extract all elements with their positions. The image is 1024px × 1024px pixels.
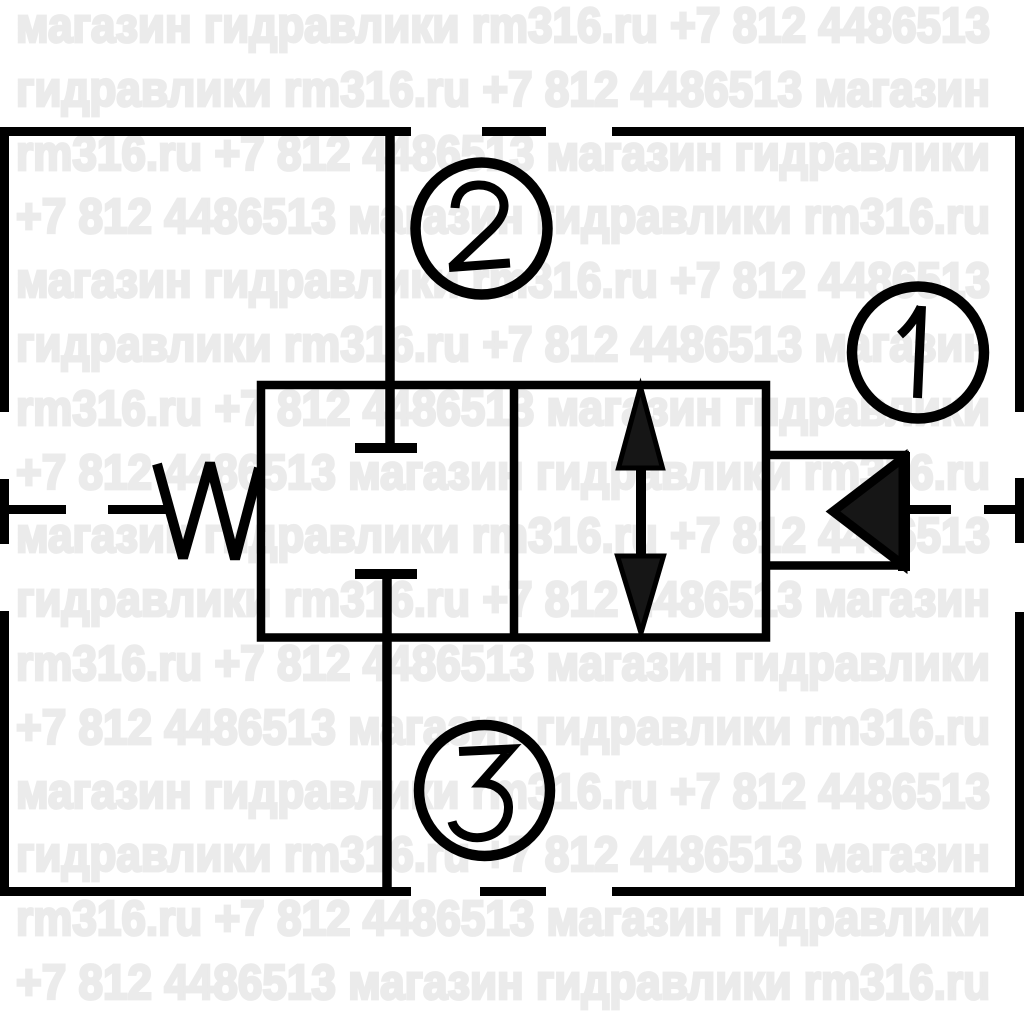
envelope top border (dashed) xyxy=(0,127,1024,136)
svg-text:rm316.ru +7 812 4486513 магази: rm316.ru +7 812 4486513 магазин гидравли… xyxy=(16,892,990,946)
svg-text:гидравлики rm316.ru +7 812 448: гидравлики rm316.ru +7 812 4486513 магаз… xyxy=(16,573,990,627)
envelope bottom border (dashed) xyxy=(0,887,1024,896)
port label circle 3 xyxy=(419,725,550,856)
svg-text:гидравлики rm316.ru +7 812 448: гидравлики rm316.ru +7 812 4486513 магаз… xyxy=(16,63,990,117)
svg-text:+7 812 4486513 магазин гидравл: +7 812 4486513 магазин гидравлики rm316.… xyxy=(16,956,990,1010)
digit 3 xyxy=(452,749,511,838)
blocked port T bottom (left square) xyxy=(355,574,417,638)
envelope left border (dashed) xyxy=(0,127,9,896)
port 1 stub dashes xyxy=(910,505,1020,514)
pilot dashed line left xyxy=(0,505,169,514)
port 3 line xyxy=(382,638,392,892)
valve body envelope (two-position body) xyxy=(261,385,766,638)
digit 1 xyxy=(900,306,922,398)
envelope right border (dashed) xyxy=(1015,127,1024,896)
flow arrow double-headed (right square) xyxy=(618,387,664,633)
blocked port T top (left square) xyxy=(355,385,417,448)
svg-text:rm316.ru +7 812 4486513 магази: rm316.ru +7 812 4486513 магазин гидравли… xyxy=(16,637,990,691)
svg-text:rm316.ru +7 812 4486513 магази: rm316.ru +7 812 4486513 магазин гидравли… xyxy=(16,382,990,436)
port label circle 1 xyxy=(852,287,984,419)
svg-text:гидравлики rm316.ru +7 812 448: гидравлики rm316.ru +7 812 4486513 магаз… xyxy=(16,318,990,372)
pilot triangle (filled, pointing left) xyxy=(833,452,904,571)
pilot actuator box (right side) xyxy=(766,455,909,566)
port 2 line xyxy=(385,132,395,386)
svg-text:магазин гидравлики rm316.ru +7: магазин гидравлики rm316.ru +7 812 44865… xyxy=(16,0,990,53)
digit 2 xyxy=(449,185,510,268)
spring (left side) xyxy=(157,463,259,559)
position divider line xyxy=(510,385,519,638)
port label circle 2 xyxy=(416,163,548,295)
